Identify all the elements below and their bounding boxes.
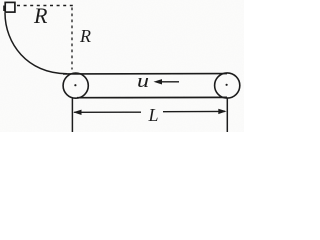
svg-text:R: R xyxy=(33,3,48,28)
svg-text:R: R xyxy=(79,26,91,46)
svg-text:L: L xyxy=(148,105,159,125)
svg-text:u: u xyxy=(137,71,149,92)
